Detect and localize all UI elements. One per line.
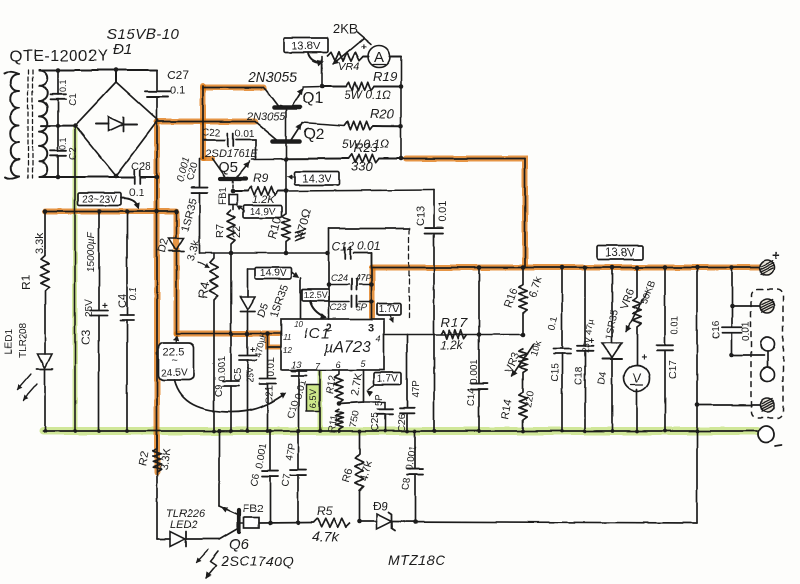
diode D5 1SR35 (240, 269, 255, 334)
svg-text:R5: R5 (317, 504, 333, 518)
resistor R20 0.1ohm (344, 121, 401, 129)
label LED1 (4, 329, 15, 354)
label D2 1SR35 (179, 197, 199, 233)
node R12-R11 junction (337, 401, 342, 406)
node rail / bottom wire (155, 175, 160, 180)
pin 3 label (368, 322, 374, 334)
label 2SD1761E (204, 148, 259, 160)
svg-text:0.01: 0.01 (266, 357, 277, 377)
wire node-253 horizontal (200, 252, 329, 254)
junction on ground bus (610, 429, 614, 433)
label C20 value (175, 156, 192, 183)
label R11 (326, 414, 340, 434)
label IC1 (304, 325, 330, 342)
label C8 (400, 477, 413, 492)
label Q5 (218, 159, 238, 176)
svg-text:R9: R9 (253, 171, 269, 185)
label D2 (156, 237, 171, 254)
node R19 right (399, 84, 404, 89)
svg-text:C1: C1 (68, 93, 79, 106)
capacitor C2 (50, 126, 79, 177)
node pin3/C24 (369, 282, 374, 287)
capacitor C13 0.01 (425, 190, 443, 431)
svg-text:3: 3 (368, 322, 374, 334)
label C25 value (374, 393, 385, 406)
terminal output minus (758, 426, 782, 446)
svg-text:1.7V: 1.7V (377, 374, 398, 385)
voltage box 12.5V (302, 289, 329, 319)
diode D4 1SR35 (602, 268, 622, 432)
svg-text:10: 10 (294, 320, 303, 329)
node pin3/bus corner (371, 253, 373, 268)
svg-text:13.8V: 13.8V (605, 248, 635, 260)
label C9 (214, 384, 225, 397)
label C3 (79, 329, 93, 345)
wire Q2 emitter to R20 (302, 123, 344, 126)
wire secondary center tap (41, 125, 75, 127)
node C16 bus (730, 265, 735, 270)
node VR6 bus (635, 265, 640, 270)
terminal output plus (760, 247, 781, 275)
wire pin4 R17 row (384, 334, 523, 336)
svg-text:C3: C3 (79, 329, 93, 345)
highlight orange pin3 wire (369, 268, 375, 317)
junction on ground bus (268, 429, 272, 433)
svg-text:~: ~ (172, 356, 178, 367)
resistor R4 3.3k (210, 253, 218, 431)
svg-text:0.001: 0.001 (217, 356, 228, 381)
label 50KB (639, 279, 658, 306)
resistor R23 330 (286, 154, 401, 162)
terminal meter plus (760, 299, 774, 313)
resistor R17 1.2k (441, 330, 467, 338)
label QTE-12002Y (10, 48, 108, 65)
resistor R11 750 (335, 409, 343, 431)
junction on ground bus (212, 429, 216, 433)
node VR3 top (521, 332, 526, 337)
svg-text:Ð1: Ð1 (113, 41, 132, 58)
label C15 value (546, 315, 560, 332)
label 2KB (333, 21, 358, 36)
junction on ground bus (583, 429, 587, 433)
label R9 value (252, 194, 275, 206)
node bridge bottom vertex (114, 174, 119, 179)
svg-text:C2: C2 (68, 147, 79, 160)
label C22 (202, 128, 221, 139)
svg-text:C18: C18 (574, 366, 585, 385)
pin 6 label (336, 360, 341, 370)
junction on ground bus (695, 429, 699, 433)
svg-text:+: + (102, 301, 108, 312)
highlight orange pin12 stub (268, 335, 282, 348)
label FB2 (243, 503, 263, 515)
label uA723 (323, 339, 371, 356)
svg-text:13.8V: 13.8V (292, 41, 321, 53)
label C23 (330, 302, 347, 312)
wire D5 to pin10 (248, 268, 257, 270)
ground bus wire (43, 430, 757, 432)
label C20 (185, 161, 200, 182)
svg-text:C6: C6 (249, 473, 262, 488)
junction on ground bus (217, 429, 221, 433)
label C26 (397, 413, 408, 432)
svg-text:Q2: Q2 (303, 126, 324, 143)
capacitor C5 470uF (239, 334, 256, 432)
svg-text:12.5V: 12.5V (304, 290, 328, 300)
svg-text:1.2k: 1.2k (440, 338, 464, 352)
wire dashed drop right of loop (408, 229, 410, 319)
node Q5 base / R9 left (231, 189, 236, 194)
label C23 value (356, 302, 367, 312)
node top-vertex tap (114, 68, 119, 82)
junction on ground bus (477, 429, 481, 433)
label C7 value (284, 442, 298, 462)
svg-text:Ð9: Ð9 (373, 499, 389, 513)
wire to meter jack plus (732, 305, 760, 307)
svg-text:C8: C8 (400, 477, 413, 492)
svg-text:C23: C23 (330, 302, 347, 312)
wire VR4 drop (321, 57, 323, 87)
capacitor C17 0.01 (657, 268, 674, 432)
junction on ground bus (296, 429, 300, 433)
wire C12 top loop (329, 229, 409, 254)
label R17 (441, 315, 468, 330)
svg-text:0.01: 0.01 (235, 129, 255, 140)
label R7 value (231, 226, 243, 238)
svg-text:+: + (641, 352, 647, 363)
label D4 1SR35 (604, 308, 620, 340)
label VR3 (504, 351, 523, 375)
label C13 (415, 206, 427, 226)
svg-text:C7: C7 (280, 473, 293, 488)
resistor R6 4.7k (355, 431, 363, 522)
capacitor C18 47uF (577, 268, 594, 432)
label C3 plus (102, 301, 108, 312)
highlight green IC pin7 wire (318, 372, 323, 430)
wire pin7 (319, 370, 321, 431)
label D9 (373, 499, 389, 513)
node secondary top / C1 column (56, 68, 61, 73)
label C26 value (411, 380, 422, 398)
wire pin2 column (328, 253, 330, 319)
resistor R5 4.7k (313, 518, 350, 526)
wire ammeter to right column (390, 57, 402, 159)
label R2 value (158, 446, 174, 471)
svg-text:C26: C26 (397, 413, 408, 432)
pin 11 label (283, 333, 291, 342)
svg-text:C24: C24 (331, 273, 348, 283)
svg-text:LED1: LED1 (4, 329, 15, 354)
svg-text:R23: R23 (354, 140, 379, 155)
svg-text:FB2: FB2 (243, 503, 263, 515)
resistor R12 2.7K (335, 370, 343, 403)
svg-text:R2: R2 (137, 451, 151, 467)
label S15VB-10 (107, 26, 180, 43)
capacitor C7 47P (291, 431, 306, 523)
svg-text:4: 4 (376, 334, 381, 344)
wire green vertical bridge to bus (74, 126, 76, 431)
svg-text:47P: 47P (355, 273, 371, 283)
label C24 value (355, 273, 371, 283)
svg-text:0.01: 0.01 (437, 201, 449, 222)
svg-text:25V: 25V (84, 299, 95, 317)
annotation swoosh arrow to C21 (174, 380, 286, 412)
label 6.7k (527, 275, 546, 299)
svg-text:C17: C17 (668, 360, 679, 379)
label 2SC1740Q (220, 553, 294, 569)
highlight orange D2 branch (174, 212, 180, 333)
svg-text:5P: 5P (356, 302, 367, 312)
op-amp regulator IC1 uA723 body (281, 319, 384, 370)
resistor R1 3.3k (41, 212, 49, 355)
junction on ground bus (413, 429, 417, 433)
node R10 bottom (284, 251, 289, 256)
node C14 bus (477, 265, 482, 270)
junction on ground bus (432, 429, 436, 433)
label 2N3055 Q1 (247, 69, 297, 85)
label C21 value (266, 357, 277, 377)
node C9 top (229, 331, 234, 336)
junction on ground bus (337, 429, 341, 433)
wire Q6 base row (259, 522, 313, 525)
switch link (767, 351, 769, 368)
transistor Q2 2N3055 (255, 122, 302, 142)
svg-text:330: 330 (351, 159, 373, 174)
label C28 leader (0, 0, 1, 1)
LED1 emission arrows (17, 374, 37, 400)
svg-text:Q1: Q1 (302, 90, 323, 107)
label C17 value (670, 315, 681, 335)
wire Q1 emitter to R19 (303, 86, 322, 89)
junction on ground bus (383, 429, 387, 433)
junction on ground bus (318, 429, 322, 433)
zener diode D9 MTZ18C (360, 512, 698, 531)
capacitor C27 (145, 68, 189, 120)
capacitor C24 47P (329, 279, 372, 290)
wire to switch link (732, 354, 764, 356)
node feedback/jack junction (695, 403, 700, 408)
switch contact lower (761, 368, 775, 382)
label C12 value (357, 239, 380, 253)
highlight orange R23 to bus wire (406, 159, 525, 267)
label C3 15000uF (86, 231, 97, 272)
label TLR208 (18, 322, 29, 358)
node C21 top (265, 331, 270, 336)
label 2.7K (349, 371, 365, 396)
ammeter A1 (361, 42, 390, 68)
capacitor C23 5P (329, 296, 372, 307)
label C12 (332, 239, 354, 253)
node R1 top (43, 209, 48, 214)
resistor R2 3.3k (153, 431, 161, 539)
highlight orange unregulated rail vertical (154, 122, 160, 472)
label C4 (117, 294, 129, 308)
node pin2/C24 (327, 282, 332, 287)
svg-text:R4: R4 (195, 281, 213, 300)
svg-text:0.01: 0.01 (357, 239, 380, 253)
node R16 bus (521, 265, 526, 270)
label VR4 (338, 61, 359, 73)
svg-text:12: 12 (283, 346, 292, 355)
potentiometer VR4 2K (327, 32, 371, 64)
wire C9 column upper (230, 253, 232, 334)
svg-text:Q5: Q5 (218, 159, 238, 176)
label FB1 (218, 186, 229, 205)
label C17 (668, 360, 679, 379)
node C16 bottom tap (730, 353, 735, 358)
label C4 value (128, 287, 139, 301)
label R20 value (342, 137, 389, 151)
node D4 bus (610, 265, 615, 270)
node C12 left (326, 251, 331, 256)
svg-text:R20: R20 (370, 106, 395, 121)
svg-text:+: + (361, 42, 367, 53)
svg-text:R1: R1 (19, 274, 33, 290)
svg-text:2N3055: 2N3055 (247, 69, 297, 85)
svg-text:C28: C28 (131, 161, 151, 173)
svg-text:C15: C15 (550, 363, 561, 382)
potentiometer VR3 10k (512, 344, 533, 376)
node D2 branch corner (174, 209, 179, 214)
wire 23V horizontal (45, 211, 177, 213)
junction on ground bus (73, 429, 77, 433)
label D5 (256, 302, 272, 319)
label C16 value (741, 321, 752, 341)
label Q6 (229, 536, 250, 553)
svg-text:1.7V: 1.7V (379, 304, 400, 315)
wire Q1 Q2 base column (285, 109, 287, 191)
label R1 value (34, 233, 46, 254)
svg-text:23~23V: 23~23V (82, 195, 117, 206)
resistor R16 6.7k (519, 268, 527, 335)
label R20 (370, 106, 395, 121)
svg-text:C25: C25 (370, 412, 381, 431)
node center tap (56, 123, 61, 128)
diode D2 1SR35 (169, 212, 184, 334)
label R5 (317, 504, 333, 518)
svg-text:13: 13 (291, 360, 301, 370)
voltage box 23-23V (78, 193, 139, 209)
label R14 220 (523, 390, 537, 409)
resistor R10 470 (282, 191, 290, 253)
resistor R7 22 (227, 210, 235, 253)
resistor R19 0.1ohm (322, 82, 401, 90)
svg-text:V: V (633, 370, 642, 385)
node D9/C8 junction (413, 520, 418, 525)
wire secondary top to C27 (39, 69, 157, 71)
highlight orange 23V wire (45, 209, 176, 215)
label R4 value (185, 238, 209, 268)
node secondary bottom / C2 column (56, 175, 61, 180)
label C24 (331, 273, 348, 283)
label R19 value (344, 88, 391, 102)
svg-text:5P: 5P (374, 393, 385, 406)
node R7 bottom (229, 251, 234, 256)
resistor R9 1.2K (233, 187, 286, 195)
wire Q1 collector stub (203, 87, 264, 89)
node R5/R6/D9 junction (357, 519, 362, 524)
svg-text:C5: C5 (233, 368, 244, 381)
pin 13 label (291, 360, 301, 370)
wire C28 to rail (140, 176, 157, 178)
pin 7 label (315, 361, 321, 371)
capacitor C15 0.1 (554, 268, 571, 432)
svg-text:Q6: Q6 (229, 536, 250, 553)
svg-text:0.1: 0.1 (128, 287, 139, 301)
voltage box 14.9V b (255, 268, 299, 280)
node bridge left vertex (73, 123, 78, 128)
svg-text:TLR208: TLR208 (18, 322, 29, 358)
svg-text:FB1: FB1 (218, 186, 229, 205)
svg-text:0.1: 0.1 (58, 79, 68, 92)
label C5 (233, 368, 244, 381)
label C10 value (293, 379, 309, 401)
label C22 value (235, 129, 255, 140)
LED2 emission arrows (196, 550, 218, 578)
capacitor C1 (50, 70, 79, 126)
capacitor C14 0.001 (471, 268, 488, 432)
potentiometer VR6 50KB (626, 268, 647, 366)
label R7 (214, 224, 226, 238)
node pin3/C23 (369, 299, 374, 304)
pin 4 label (376, 334, 381, 344)
capacitor C28 (129, 161, 151, 199)
highlight orange pin11 wire (177, 331, 280, 337)
voltage box 6.5V (307, 385, 320, 411)
highlight orange Q5 collector stub (203, 156, 212, 161)
label C5 25V (245, 367, 255, 383)
label 2N3055 Q2 (246, 111, 286, 123)
pin 10 label (294, 320, 303, 329)
node C5/D5 junction (245, 331, 250, 336)
label R10 (265, 216, 284, 241)
LED LED2 TLR226 (157, 532, 219, 547)
capacitor C3 15000uF (90, 212, 108, 432)
label R12 (325, 374, 339, 394)
svg-text:24.5V: 24.5V (161, 368, 187, 379)
bridge rectifier D1 outline (75, 82, 158, 176)
label R16 (503, 287, 521, 310)
label Q1 (302, 90, 323, 107)
label R6 value (358, 459, 375, 483)
label MTZ18C (388, 552, 446, 568)
junction on ground bus (125, 429, 129, 433)
svg-text:µA723: µA723 (323, 339, 371, 356)
label R23 (354, 140, 379, 155)
highlight orange Q2 collector feed (158, 119, 255, 125)
junction on ground bus (43, 429, 47, 433)
label R4 (195, 281, 213, 300)
node C3 top (97, 209, 102, 214)
label R9 (253, 171, 269, 185)
junction on ground bus (405, 429, 409, 433)
svg-text:0.1: 0.1 (129, 187, 144, 199)
capacitor C4 0.1 (120, 212, 134, 432)
wire R23 to output bus (401, 159, 525, 268)
transistor Q1 2N3055 (264, 88, 303, 108)
wire pin3 column (371, 253, 373, 319)
svg-text:5W 0.1Ω: 5W 0.1Ω (344, 88, 391, 102)
wire pin11 (177, 333, 282, 335)
label R1 (19, 274, 33, 290)
voltage box 14.9V a (237, 206, 282, 219)
transistor Q6 2SC1740Q (219, 506, 239, 540)
node feedback column bus (695, 265, 700, 270)
node C6 bottom (268, 521, 273, 526)
wire orange link vertical (202, 86, 204, 159)
wire secondary bottom (39, 176, 134, 178)
svg-text:2KB: 2KB (333, 21, 358, 36)
